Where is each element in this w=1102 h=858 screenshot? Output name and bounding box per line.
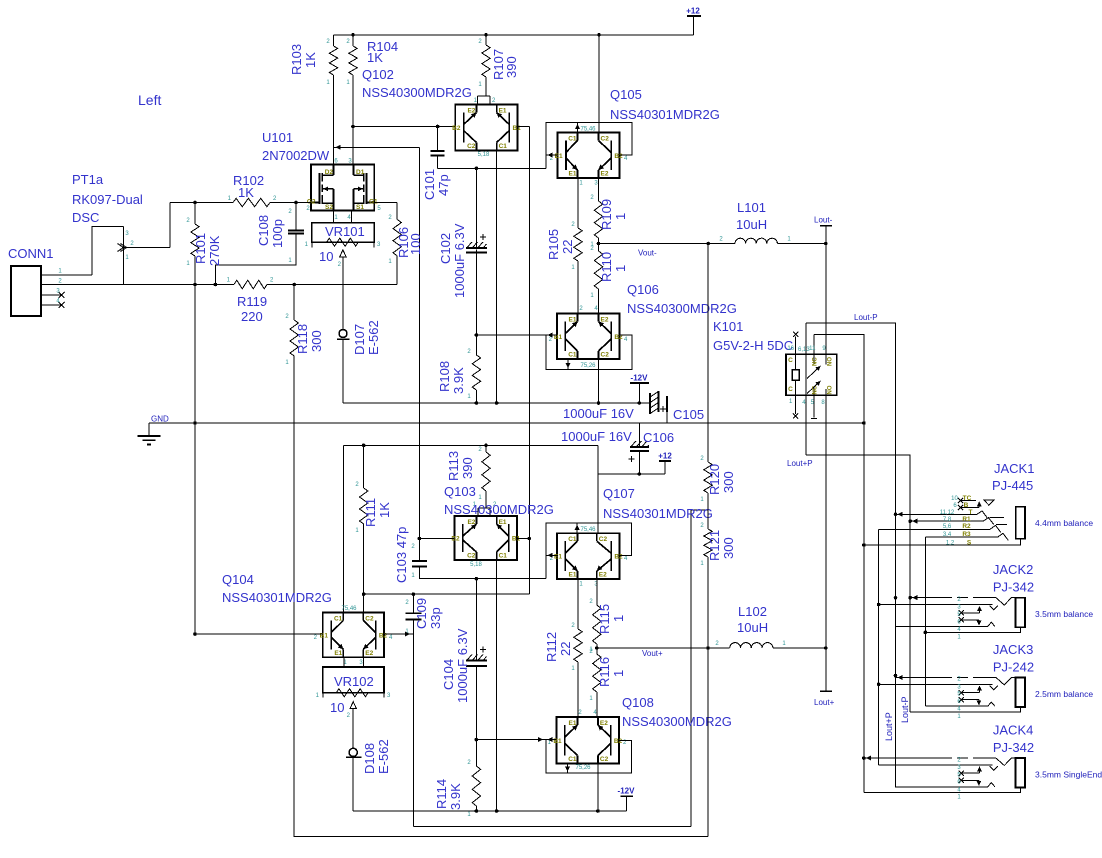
svg-text:300: 300 xyxy=(721,537,736,559)
svg-text:2: 2 xyxy=(700,456,704,462)
svg-text:E1: E1 xyxy=(569,572,577,579)
svg-text:5,18: 5,18 xyxy=(470,562,482,568)
resistor R121 xyxy=(700,523,736,837)
svg-text:JACK4: JACK4 xyxy=(993,723,1033,738)
svg-text:22: 22 xyxy=(558,642,573,656)
ground GND xyxy=(138,415,866,445)
label Left xyxy=(138,92,161,108)
wire Q102 top pins xyxy=(474,96,496,105)
wire U101 right pin xyxy=(374,203,397,213)
svg-text:D1: D1 xyxy=(356,169,365,176)
svg-text:PJ-342: PJ-342 xyxy=(993,580,1034,595)
svg-text:100p: 100p xyxy=(270,219,285,248)
svg-text:C1: C1 xyxy=(568,536,577,543)
svg-text:4: 4 xyxy=(347,215,351,221)
capacitor C106 xyxy=(561,423,674,474)
power +12 (mid) xyxy=(598,452,672,476)
relay contacts xyxy=(807,335,834,419)
svg-text:6: 6 xyxy=(334,159,338,165)
connector JACK1 (PJ-445) xyxy=(864,461,1093,546)
inductor L102 xyxy=(708,604,828,650)
transistor Q107 xyxy=(550,527,628,588)
label Q105 xyxy=(610,87,720,122)
wire Q104 B1 xyxy=(195,633,323,635)
capacitor C102 xyxy=(438,168,487,335)
wire Q106 C2 down xyxy=(598,359,600,403)
svg-text:3: 3 xyxy=(348,159,352,165)
svg-text:Q104: Q104 xyxy=(222,572,254,587)
svg-text:1: 1 xyxy=(611,615,626,622)
svg-text:VR101: VR101 xyxy=(325,224,365,239)
ic U101 box xyxy=(307,165,378,211)
svg-text:E1: E1 xyxy=(569,720,577,727)
svg-text:390: 390 xyxy=(460,457,475,479)
svg-text:2: 2 xyxy=(478,39,482,45)
svg-text:L102: L102 xyxy=(738,604,767,619)
svg-text:1,2: 1,2 xyxy=(946,540,955,546)
svg-text:C108: C108 xyxy=(256,215,271,246)
svg-text:75,46: 75,46 xyxy=(341,606,357,612)
svg-text:NSS40300MDR2G: NSS40300MDR2G xyxy=(362,85,472,100)
svg-text:1: 1 xyxy=(957,634,961,640)
svg-text:1K: 1K xyxy=(303,52,318,68)
svg-text:1: 1 xyxy=(305,242,309,248)
svg-text:2: 2 xyxy=(338,262,342,268)
label Q104 xyxy=(222,572,332,605)
wire relay NC to GND xyxy=(814,335,864,424)
svg-text:3: 3 xyxy=(377,242,381,248)
wire bias +12 column xyxy=(597,445,599,533)
svg-text:B2: B2 xyxy=(379,632,388,639)
svg-text:Q107: Q107 xyxy=(603,486,635,501)
potentiometer VR102 xyxy=(316,667,391,719)
svg-text:33p: 33p xyxy=(428,607,443,629)
transistor Q105 xyxy=(550,127,628,187)
svg-text:C103 47p: C103 47p xyxy=(394,527,409,583)
svg-text:PT1a: PT1a xyxy=(72,172,104,187)
svg-text:PJ-445: PJ-445 xyxy=(992,478,1033,493)
resistor R120 xyxy=(700,244,736,530)
svg-text:2: 2 xyxy=(130,241,134,247)
svg-text:1: 1 xyxy=(285,360,289,366)
inductor L101 xyxy=(708,200,827,245)
svg-text:100: 100 xyxy=(408,233,423,255)
svg-text:1: 1 xyxy=(782,641,786,647)
svg-text:D107: D107 xyxy=(352,324,367,355)
svg-text:E1: E1 xyxy=(334,650,342,657)
svg-text:R105: R105 xyxy=(546,229,561,260)
svg-text:R118: R118 xyxy=(295,324,310,354)
capacitor C108 xyxy=(214,203,304,287)
svg-text:2: 2 xyxy=(579,306,583,312)
svg-text:1: 1 xyxy=(611,670,626,677)
svg-text:R1: R1 xyxy=(962,516,971,523)
svg-text:4: 4 xyxy=(624,156,628,162)
svg-text:1000uF 16V: 1000uF 16V xyxy=(561,429,632,444)
resistor R118 xyxy=(285,285,708,837)
terminal Lout- xyxy=(814,216,833,244)
svg-text:2: 2 xyxy=(270,278,274,284)
svg-text:2: 2 xyxy=(715,641,719,647)
svg-text:390: 390 xyxy=(504,56,519,78)
svg-text:R110: R110 xyxy=(599,252,614,282)
svg-text:+12: +12 xyxy=(658,452,672,461)
svg-text:2: 2 xyxy=(578,710,582,716)
node Vout+ xyxy=(595,646,710,658)
capacitor C104 xyxy=(441,579,487,740)
wire input net xyxy=(41,283,397,287)
svg-text:1: 1 xyxy=(571,265,575,271)
transistor Q104 xyxy=(314,606,393,666)
svg-text:GND: GND xyxy=(151,415,169,424)
svg-text:C2: C2 xyxy=(599,536,608,543)
svg-text:2: 2 xyxy=(589,599,593,605)
svg-text:1: 1 xyxy=(355,528,359,534)
transistor Q102 xyxy=(452,105,521,159)
wire C1 column (Q103) xyxy=(495,560,499,813)
svg-text:Lout-P: Lout-P xyxy=(900,696,910,723)
svg-text:K101: K101 xyxy=(713,319,743,334)
label PT1a xyxy=(72,172,143,225)
label Lout-P vertical xyxy=(900,696,910,723)
svg-text:2: 2 xyxy=(719,237,723,243)
diode D107 xyxy=(337,320,381,403)
svg-text:1: 1 xyxy=(478,82,482,88)
svg-text:1K: 1K xyxy=(377,502,392,518)
svg-text:4: 4 xyxy=(594,306,598,312)
wire bias line xyxy=(344,444,599,448)
svg-text:C101: C101 xyxy=(422,169,437,200)
connector JACK3 (PJ-242) xyxy=(879,642,1094,720)
svg-text:2: 2 xyxy=(549,337,553,343)
svg-text:2: 2 xyxy=(355,482,359,488)
resistor R119 xyxy=(227,278,274,325)
svg-text:2: 2 xyxy=(589,649,593,655)
svg-text:JACK1: JACK1 xyxy=(994,461,1034,476)
svg-text:T: T xyxy=(969,509,973,516)
svg-text:1: 1 xyxy=(579,582,583,588)
svg-text:R112: R112 xyxy=(544,632,559,662)
svg-text:NSS40301MDR2G: NSS40301MDR2G xyxy=(603,506,713,521)
power -12V (lower) xyxy=(618,787,636,811)
resistor R101 xyxy=(186,203,222,636)
svg-text:2: 2 xyxy=(314,635,318,641)
svg-text:Vout+: Vout+ xyxy=(642,649,663,658)
wire B2 net (R104 to Q102) xyxy=(351,125,455,129)
svg-text:1000uF 6.3V: 1000uF 6.3V xyxy=(455,628,470,703)
resistor R102 xyxy=(170,173,296,207)
wire B1 net (Q102 to Q103) xyxy=(518,127,532,595)
svg-text:R113: R113 xyxy=(446,451,461,481)
wire gate top (R103 to lower B2 column) xyxy=(334,145,420,539)
svg-text:R3: R3 xyxy=(962,531,971,538)
svg-text:C1: C1 xyxy=(568,136,577,143)
svg-text:3,4: 3,4 xyxy=(943,532,952,538)
svg-text:3: 3 xyxy=(359,660,363,666)
svg-text:3.9K: 3.9K xyxy=(451,367,466,394)
wiper arrow VR102 xyxy=(350,702,356,749)
wire Q108 loop xyxy=(546,737,632,773)
label Q107 xyxy=(603,486,713,521)
svg-text:C1: C1 xyxy=(499,553,508,560)
svg-text:1K: 1K xyxy=(367,50,383,65)
svg-text:220: 220 xyxy=(241,309,263,324)
svg-text:6: 6 xyxy=(953,503,957,509)
resistor R110 xyxy=(590,244,628,314)
resistor R108 xyxy=(437,335,481,403)
svg-text:E2: E2 xyxy=(467,519,475,526)
wire +12 rail xyxy=(334,33,694,37)
svg-text:1K: 1K xyxy=(238,185,254,200)
svg-text:R108: R108 xyxy=(437,361,452,392)
wire Lout+P xyxy=(787,455,912,712)
svg-text:1: 1 xyxy=(957,795,961,801)
wire Q104 B2 xyxy=(384,632,413,637)
terminal Lout+ xyxy=(814,648,835,707)
svg-text:C2: C2 xyxy=(467,143,476,150)
svg-text:Q108: Q108 xyxy=(622,695,654,710)
svg-text:C109: C109 xyxy=(414,598,429,629)
wiper arrow VR101 xyxy=(340,250,346,330)
wire C2/C103 to Q107 loop xyxy=(476,578,545,580)
svg-text:1: 1 xyxy=(613,213,628,220)
svg-text:1: 1 xyxy=(700,497,704,503)
svg-text:E2: E2 xyxy=(601,317,609,324)
connector JACK2 (PJ-342) xyxy=(879,562,1094,640)
svg-text:R120: R120 xyxy=(707,464,722,495)
svg-text:2: 2 xyxy=(288,209,292,215)
svg-text:3.5mm balance: 3.5mm balance xyxy=(1035,609,1093,619)
svg-text:2: 2 xyxy=(700,523,704,529)
svg-text:R103: R103 xyxy=(289,44,304,75)
svg-text:3.5mm SingleEnd: 3.5mm SingleEnd xyxy=(1035,770,1102,780)
svg-text:C: C xyxy=(788,386,793,393)
wire R3 chain xyxy=(924,537,928,706)
svg-text:NO: NO xyxy=(828,357,834,366)
svg-text:1: 1 xyxy=(288,258,292,264)
svg-text:2.5mm balance: 2.5mm balance xyxy=(1035,689,1093,699)
wire relay NO top (Lout-) xyxy=(825,244,827,355)
resistor R112 xyxy=(544,579,582,717)
node Vout- xyxy=(597,242,710,258)
svg-text:7,8: 7,8 xyxy=(943,517,952,523)
resistor R111 xyxy=(355,445,392,594)
svg-text:B2: B2 xyxy=(614,554,623,561)
resistor R113 xyxy=(446,445,490,508)
wire ground chain to jacks xyxy=(862,423,866,793)
svg-text:U101: U101 xyxy=(262,130,293,145)
svg-text:G5V-2-H 5DC: G5V-2-H 5DC xyxy=(713,338,793,353)
svg-text:C105: C105 xyxy=(673,407,704,422)
capacitor C103 xyxy=(394,527,478,583)
label Q102 xyxy=(362,67,472,100)
wire Q107 loop xyxy=(546,523,632,579)
svg-text:Q106: Q106 xyxy=(627,282,659,297)
svg-text:2: 2 xyxy=(346,39,350,45)
label Q103 xyxy=(444,484,554,517)
svg-text:-12V: -12V xyxy=(618,787,636,796)
wire U101 left pin xyxy=(294,201,311,212)
svg-text:Vout-: Vout- xyxy=(638,249,657,258)
svg-text:S2: S2 xyxy=(325,204,333,211)
svg-text:2: 2 xyxy=(285,314,289,320)
svg-text:Left: Left xyxy=(138,92,161,108)
wire Q104 C2 stub xyxy=(363,594,365,612)
transistor Q106 xyxy=(549,306,628,369)
svg-text:1: 1 xyxy=(579,181,583,187)
svg-text:2: 2 xyxy=(411,544,415,550)
svg-text:300: 300 xyxy=(309,330,324,352)
wire Q103 B1 xyxy=(517,538,529,540)
resistor R103 xyxy=(289,35,338,165)
svg-text:1: 1 xyxy=(957,714,961,720)
svg-text:NSS40300MDR2G: NSS40300MDR2G xyxy=(444,502,554,517)
svg-text:2: 2 xyxy=(273,196,277,202)
svg-text:4: 4 xyxy=(389,635,393,641)
svg-text:3: 3 xyxy=(125,231,129,237)
svg-text:Lout+P: Lout+P xyxy=(787,459,813,468)
relay common pin xyxy=(798,323,810,455)
resistor R115 xyxy=(589,579,626,653)
svg-text:1: 1 xyxy=(590,293,594,299)
svg-text:C2: C2 xyxy=(601,352,610,359)
svg-text:NSS40301MDR2G: NSS40301MDR2G xyxy=(222,590,332,605)
svg-text:1: 1 xyxy=(388,259,392,265)
svg-text:3: 3 xyxy=(957,605,961,611)
label Q108 xyxy=(622,695,732,729)
wire feedback bottom xyxy=(413,510,708,827)
svg-text:2: 2 xyxy=(306,206,310,212)
transistor Q103 xyxy=(451,516,520,568)
label U101 xyxy=(262,130,330,163)
wire Q106 B1 xyxy=(475,333,557,337)
svg-text:PJ-242: PJ-242 xyxy=(993,660,1034,675)
capacitor C101 xyxy=(422,127,451,201)
svg-text:4: 4 xyxy=(624,556,628,562)
svg-text:C2: C2 xyxy=(600,756,609,763)
svg-text:C: C xyxy=(788,357,793,364)
svg-text:1: 1 xyxy=(789,399,793,405)
svg-text:Lout+: Lout+ xyxy=(814,698,835,707)
svg-text:75,26: 75,26 xyxy=(575,765,591,771)
svg-text:270K: 270K xyxy=(207,235,222,266)
svg-text:1: 1 xyxy=(467,394,471,400)
svg-text:300: 300 xyxy=(721,471,736,493)
wire Q108 C2 down xyxy=(597,764,599,812)
resistor R114 xyxy=(434,740,481,818)
connector CONN1 xyxy=(8,227,124,317)
svg-text:1: 1 xyxy=(326,80,330,86)
wire -12V rail bottom xyxy=(353,809,626,813)
svg-text:NSS40300MDR2G: NSS40300MDR2G xyxy=(627,301,737,316)
svg-text:1: 1 xyxy=(589,696,593,702)
svg-text:E2: E2 xyxy=(601,171,609,178)
svg-text:11: 11 xyxy=(809,346,816,352)
svg-text:TC: TC xyxy=(963,495,972,502)
svg-text:2: 2 xyxy=(492,98,496,104)
svg-text:NSS40301MDR2G: NSS40301MDR2G xyxy=(610,107,720,122)
svg-text:C1: C1 xyxy=(568,352,577,359)
svg-text:1: 1 xyxy=(613,265,628,272)
svg-text:1000uF 6.3V: 1000uF 6.3V xyxy=(452,223,467,298)
svg-text:4.4mm balance: 4.4mm balance xyxy=(1035,518,1093,528)
svg-text:S: S xyxy=(967,539,972,546)
svg-text:1: 1 xyxy=(700,561,704,567)
svg-text:1: 1 xyxy=(411,573,415,579)
svg-text:3: 3 xyxy=(957,765,961,771)
svg-text:2: 2 xyxy=(478,447,482,453)
wire C101/C2 to Q105 loop xyxy=(438,167,546,171)
svg-text:1: 1 xyxy=(478,495,482,501)
connector JACK4 (PJ-342) xyxy=(864,723,1102,801)
wire relay NO bottom (Lout+) xyxy=(825,395,827,648)
svg-text:C1: C1 xyxy=(334,616,343,623)
svg-text:JACK2: JACK2 xyxy=(993,562,1033,577)
svg-text:2: 2 xyxy=(590,195,594,201)
potentiometer VR101 xyxy=(305,223,381,268)
svg-text:1: 1 xyxy=(58,269,62,275)
svg-text:Q103: Q103 xyxy=(444,484,476,499)
svg-text:Lout-P: Lout-P xyxy=(854,313,878,322)
svg-text:10: 10 xyxy=(319,249,333,264)
svg-text:Q102: Q102 xyxy=(362,67,394,82)
svg-text:E-562: E-562 xyxy=(376,739,391,774)
svg-text:1: 1 xyxy=(571,666,575,672)
svg-text:B2: B2 xyxy=(452,125,461,132)
svg-text:C106: C106 xyxy=(643,430,674,445)
wire Q106 loop xyxy=(546,332,632,369)
svg-text:1: 1 xyxy=(125,255,129,261)
svg-text:VR102: VR102 xyxy=(334,674,374,689)
relay K101 box xyxy=(713,319,837,395)
svg-text:E1: E1 xyxy=(555,153,563,160)
svg-text:C1: C1 xyxy=(499,143,508,150)
svg-text:R101: R101 xyxy=(193,233,208,264)
svg-text:2: 2 xyxy=(326,39,330,45)
svg-text:3: 3 xyxy=(387,693,391,699)
svg-text:2N7002DW: 2N7002DW xyxy=(262,148,330,163)
svg-text:8: 8 xyxy=(821,400,825,406)
capacitor C105 xyxy=(563,391,704,423)
svg-text:B2: B2 xyxy=(614,153,623,160)
svg-text:C104: C104 xyxy=(441,659,456,690)
svg-text:2: 2 xyxy=(58,278,62,284)
wire U101 bottom stubs xyxy=(334,211,352,223)
svg-text:R119: R119 xyxy=(237,294,267,309)
svg-text:D108: D108 xyxy=(362,743,377,774)
wire -12V rail top xyxy=(343,401,650,405)
svg-text:R111: R111 xyxy=(363,498,378,527)
svg-text:RK097-Dual: RK097-Dual xyxy=(72,192,143,207)
svg-text:10uH: 10uH xyxy=(736,217,767,232)
svg-text:E2: E2 xyxy=(600,720,608,727)
svg-text:C2: C2 xyxy=(601,136,610,143)
svg-text:CONN1: CONN1 xyxy=(8,246,54,261)
wire Q104 C1 column xyxy=(343,445,345,612)
wire R2 chain xyxy=(877,529,881,765)
svg-text:E1: E1 xyxy=(569,317,577,324)
svg-text:L101: L101 xyxy=(737,200,766,215)
svg-text:B2: B2 xyxy=(614,738,623,745)
diode D108 xyxy=(346,739,391,811)
svg-text:E2: E2 xyxy=(599,572,607,579)
svg-text:R115: R115 xyxy=(597,604,612,634)
svg-text:NC: NC xyxy=(813,385,819,394)
svg-text:1: 1 xyxy=(467,812,471,818)
svg-text:1: 1 xyxy=(787,237,791,243)
svg-text:E-562: E-562 xyxy=(366,320,381,355)
svg-text:E2: E2 xyxy=(365,650,373,657)
